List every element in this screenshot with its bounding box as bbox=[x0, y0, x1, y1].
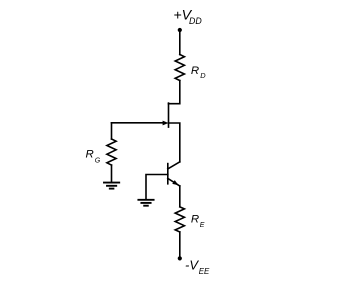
wire gate from RG bbox=[112, 122, 163, 124]
svg-text:EE: EE bbox=[199, 267, 210, 276]
transistor Q1 JFET channel bar bbox=[168, 103, 170, 127]
resistor RE bbox=[175, 207, 184, 232]
svg-text:R: R bbox=[86, 149, 94, 161]
transistor Q2 collector diagonal bbox=[168, 162, 180, 169]
wire VDD to RD bbox=[179, 31, 181, 55]
wire JFET source tap bbox=[169, 123, 180, 162]
svg-text:DD: DD bbox=[189, 16, 202, 26]
svg-text:D: D bbox=[200, 71, 206, 80]
wire RG to ground bbox=[111, 165, 113, 182]
svg-text:E: E bbox=[200, 222, 205, 229]
resistor RD bbox=[175, 55, 184, 81]
resistor RG bbox=[107, 139, 116, 165]
wire RG top bbox=[111, 123, 113, 139]
transistor Q1 gate arrowhead bbox=[163, 121, 169, 126]
ground (RG) bbox=[104, 183, 119, 189]
transistor Q2 emitter diagonal bbox=[168, 178, 180, 186]
wire RE to -VEE bbox=[179, 232, 181, 258]
svg-text:-V: -V bbox=[185, 258, 199, 273]
node +VDD terminal dot bbox=[178, 28, 182, 32]
transistor Q2 BJT base bar bbox=[167, 164, 169, 184]
wire RD to drain bbox=[169, 81, 180, 104]
svg-text:G: G bbox=[95, 157, 101, 164]
wire emitter to RE bbox=[179, 186, 181, 207]
transistor Q2 emitter arrowhead bbox=[172, 180, 178, 185]
ground (base) bbox=[138, 200, 153, 206]
svg-text:R: R bbox=[191, 65, 199, 77]
node -VEE terminal dot bbox=[178, 256, 182, 260]
svg-text:R: R bbox=[191, 213, 199, 225]
wire base to ground bbox=[146, 175, 168, 200]
